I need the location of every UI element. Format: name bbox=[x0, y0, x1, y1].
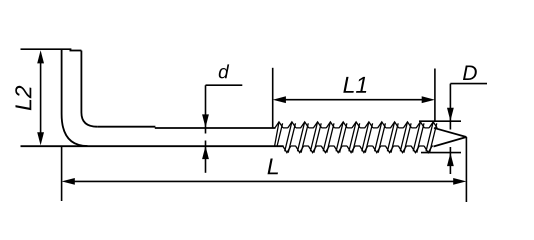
d arrow up (below shank) bbox=[202, 146, 209, 159]
screw tip cone bottom flank bbox=[434, 137, 467, 147]
hook bar left edge with outer bend bbox=[62, 49, 88, 146]
L1 arrow left bbox=[273, 96, 286, 103]
label L bbox=[268, 158, 278, 174]
L1 arrow right bbox=[422, 96, 435, 103]
L arrow left bbox=[62, 178, 75, 185]
dimension L2 top extension line bbox=[21, 48, 72, 50]
dimension D top extension line bbox=[419, 120, 461, 122]
d lower stem bbox=[205, 141, 207, 173]
shank bottom line (merged with L2/L extension) bbox=[21, 145, 284, 147]
dimension d leader (top) bbox=[206, 85, 243, 133]
D leader bbox=[450, 84, 487, 130]
dimension L line bbox=[68, 180, 460, 182]
dimension L1 right extension line bbox=[434, 69, 436, 122]
label L1 bbox=[343, 77, 366, 93]
dimension L1 left extension line bbox=[272, 68, 274, 128]
label d bbox=[219, 64, 229, 78]
thread top crest zigzag bbox=[275, 122, 437, 128]
D arrow down bbox=[447, 108, 454, 121]
dimension D bottom extension line bbox=[421, 152, 461, 154]
shank top line right part bbox=[155, 127, 276, 129]
dimension L2 line bbox=[40, 57, 42, 139]
D arrow up bbox=[447, 153, 454, 166]
d arrow down bbox=[202, 114, 209, 127]
dimension L right extension line bbox=[465, 137, 467, 202]
thread bottom crest zigzag bbox=[283, 146, 433, 153]
hook bar right edge with inner bend bbox=[81, 51, 97, 127]
shank top line bbox=[97, 126, 155, 128]
hook bar top cap bbox=[70, 50, 82, 52]
dimension L1 line bbox=[279, 99, 429, 101]
thread helix flank diagonals bbox=[275, 122, 437, 153]
L arrow right bbox=[453, 178, 466, 185]
label L2 bbox=[15, 86, 31, 111]
L2 arrow up bbox=[37, 50, 44, 63]
D lower stem bbox=[449, 147, 451, 174]
L2 arrow down bbox=[37, 132, 44, 145]
dimension L left extension line bbox=[61, 146, 63, 201]
label D bbox=[463, 66, 477, 80]
screw tip cone top flank bbox=[434, 128, 466, 137]
